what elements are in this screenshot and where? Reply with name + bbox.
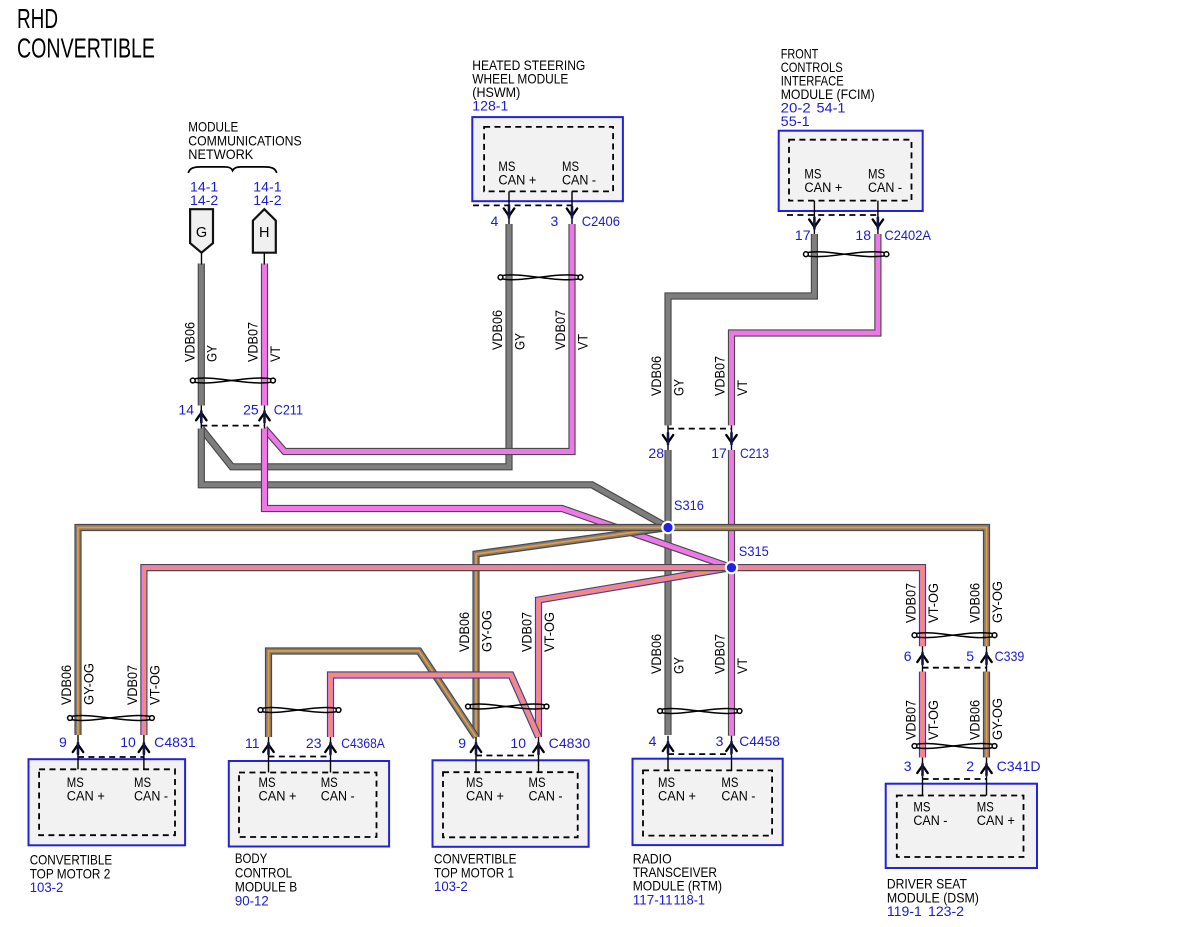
svg-text:CONVERTIBLE: CONVERTIBLE bbox=[17, 33, 155, 64]
svg-text:VDB06: VDB06 bbox=[182, 322, 197, 362]
wire VDB07 VT FCIM pin 18 down-left to C213 pin 17 bbox=[732, 234, 878, 425]
svg-text:C339: C339 bbox=[995, 648, 1025, 664]
module box FCIM bbox=[779, 131, 923, 211]
svg-text:VDB07: VDB07 bbox=[904, 583, 919, 623]
svg-text:10: 10 bbox=[510, 735, 526, 751]
svg-text:90-12: 90-12 bbox=[235, 893, 269, 909]
CTM2 pin 10 stem bbox=[143, 735, 145, 769]
svg-text:VDB06: VDB06 bbox=[649, 634, 664, 674]
svg-text:6: 6 bbox=[904, 648, 912, 664]
svg-text:GY-OG: GY-OG bbox=[480, 610, 495, 652]
svg-text:GY-OG: GY-OG bbox=[82, 663, 97, 705]
CTM2 pin 9 arrow bbox=[73, 743, 83, 754]
svg-text:C2406: C2406 bbox=[582, 213, 620, 229]
CTM2 pin 10 arrow bbox=[139, 743, 149, 754]
svg-text:119-1: 119-1 bbox=[887, 903, 922, 919]
wire VDB07 VT-OG bus: CTM2 pin 10 up, through S315, right and down to DSM C339 pin 6 bbox=[144, 568, 923, 735]
svg-text:CAN +: CAN + bbox=[804, 180, 842, 195]
svg-text:C341D: C341D bbox=[997, 758, 1041, 774]
svg-text:3: 3 bbox=[551, 213, 559, 229]
svg-text:VDB06: VDB06 bbox=[457, 612, 472, 652]
wire VDB07 VT-OG DSM C339 pin 6 down to C341D pin 3 bbox=[919, 672, 926, 758]
stem below connector G bbox=[201, 253, 203, 265]
svg-text:VDB07: VDB07 bbox=[904, 700, 919, 740]
svg-text:C4368A: C4368A bbox=[341, 735, 385, 751]
module box RTM bbox=[633, 759, 783, 845]
svg-text:2: 2 bbox=[966, 758, 974, 774]
C339 connector dashed tie bbox=[923, 667, 987, 669]
svg-text:17: 17 bbox=[795, 227, 811, 243]
twisted pair above BCM-B C4368A bbox=[258, 708, 341, 713]
svg-text:C4830: C4830 bbox=[549, 735, 591, 751]
C211 pin 25 arrow bbox=[259, 411, 269, 422]
wire VDB07 VT C211 pin 25 to HSWM MS CAN- pin 3 bbox=[265, 224, 573, 452]
svg-text:CAN -: CAN - bbox=[868, 180, 902, 195]
svg-text:23: 23 bbox=[306, 735, 322, 751]
svg-text:103-2: 103-2 bbox=[30, 879, 64, 895]
stem below connector H bbox=[263, 253, 265, 265]
svg-text:VT-OG: VT-OG bbox=[542, 612, 557, 652]
twisted pair above C211 bbox=[190, 378, 275, 383]
svg-text:55-1: 55-1 bbox=[781, 113, 810, 129]
C4830 connector dashed tie bbox=[476, 755, 539, 757]
C213 connector dashed tie bbox=[668, 428, 732, 430]
twisted pair above CTM1 C4830 bbox=[466, 704, 549, 709]
svg-text:VDB07: VDB07 bbox=[713, 356, 728, 396]
svg-text:C2402A: C2402A bbox=[884, 227, 931, 243]
svg-text:VDB07: VDB07 bbox=[553, 310, 568, 350]
CTM1 pin 9 arrow bbox=[471, 743, 481, 754]
svg-text:VDB06: VDB06 bbox=[968, 700, 983, 740]
wire VDB06 GY C213 pin 28 through S316 to RTM pin 4 bbox=[664, 450, 671, 735]
wire VDB07 VT C213 pin 17 through S315 to RTM pin 3 bbox=[728, 450, 735, 736]
svg-text:CAN +: CAN + bbox=[259, 789, 297, 804]
C211 connector dashed tie bbox=[201, 425, 264, 427]
twisted pair above DSM C341D bbox=[912, 744, 997, 749]
module box Body Control Module B bbox=[229, 761, 389, 847]
module box Convertible Top Motor 2 bbox=[29, 759, 186, 845]
svg-text:4: 4 bbox=[491, 213, 499, 229]
C211 pin 14 arrow bbox=[196, 411, 206, 422]
C213 pin 17 stem bbox=[731, 425, 733, 450]
CTM2 pin 9 stem bbox=[77, 735, 79, 769]
BCM-B pin 11 arrow bbox=[263, 743, 273, 754]
C213 pin 17 arrow bbox=[726, 433, 736, 444]
module box DSM bbox=[886, 784, 1037, 868]
svg-text:CAN -: CAN - bbox=[529, 789, 563, 804]
C213 pin 28 stem bbox=[667, 425, 669, 450]
wire VDB06 GY C211 pin 14 branch to splice S316 bbox=[201, 429, 668, 528]
svg-text:3: 3 bbox=[716, 733, 724, 749]
svg-text:VDB06: VDB06 bbox=[59, 665, 74, 705]
FCIM pin 17 stem bbox=[813, 201, 815, 234]
twisted pair above CTM2 C4831 bbox=[68, 716, 155, 721]
wire VDB07 VT from connector H down to C211 pin 25 bbox=[261, 264, 268, 406]
svg-text:NETWORK: NETWORK bbox=[188, 146, 254, 162]
svg-text:GY: GY bbox=[671, 657, 686, 674]
BCM-B pin 23 arrow bbox=[325, 743, 335, 754]
C4368A connector dashed tie bbox=[269, 756, 331, 758]
FCIM pin 18 arrow bbox=[873, 218, 883, 229]
svg-text:GY: GY bbox=[671, 379, 686, 396]
C4831 connector dashed tie bbox=[78, 756, 144, 758]
svg-text:GY: GY bbox=[205, 345, 220, 362]
svg-text:5: 5 bbox=[966, 648, 974, 664]
svg-text:54-1: 54-1 bbox=[817, 100, 846, 116]
svg-text:18: 18 bbox=[855, 227, 871, 243]
svg-text:C211: C211 bbox=[274, 402, 303, 418]
svg-text:25: 25 bbox=[243, 402, 259, 418]
svg-text:128-1: 128-1 bbox=[472, 98, 508, 114]
RTM pin 4 arrow bbox=[663, 742, 673, 753]
wire VDB06 GY from connector G down to C211 pin 14 bbox=[198, 264, 205, 406]
svg-text:CAN -: CAN - bbox=[321, 789, 355, 804]
wire VDB06 GY-OG bus: CTM2 pin 9 up, through S316, right and down to DSM C339 pin 5 bbox=[78, 528, 987, 736]
module box HSWM bbox=[472, 117, 623, 201]
svg-text:C213: C213 bbox=[740, 445, 769, 461]
CTM1 pin 10 stem bbox=[538, 737, 540, 772]
HSWM pin 3 arrow bbox=[567, 207, 577, 218]
CTM1 pin 10 arrow bbox=[533, 743, 543, 754]
splice S315 junction dot bbox=[726, 562, 737, 573]
svg-text:3: 3 bbox=[904, 758, 912, 774]
twisted pair above RTM C4458 bbox=[658, 709, 742, 714]
svg-text:CAN -: CAN - bbox=[562, 172, 596, 187]
svg-text:11: 11 bbox=[245, 735, 260, 751]
svg-text:VDB07: VDB07 bbox=[713, 634, 728, 674]
svg-text:CAN +: CAN + bbox=[466, 789, 504, 804]
svg-text:CAN +: CAN + bbox=[498, 172, 536, 187]
svg-text:10: 10 bbox=[120, 734, 136, 750]
wire VDB06 GY C211 pin 14 to HSWM MS CAN+ pin 4 bbox=[201, 224, 509, 467]
FCIM pin 18 stem bbox=[877, 201, 879, 234]
DSM C339 pin 6 arrow bbox=[917, 653, 927, 664]
connector G (module communications network) bbox=[190, 209, 213, 253]
C341D connector dashed tie bbox=[923, 778, 987, 780]
splice S316 junction dot bbox=[662, 522, 673, 533]
svg-text:VT: VT bbox=[735, 658, 750, 674]
wire VDB07 VT-OG Convertible Top Motor 1 pin 10 up to splice S315 bbox=[539, 568, 732, 737]
C4458 connector dashed tie bbox=[668, 753, 732, 755]
svg-text:117-11: 117-11 bbox=[633, 892, 673, 908]
CTM1 pin 9 stem bbox=[475, 737, 477, 772]
svg-text:S316: S316 bbox=[674, 497, 704, 513]
svg-text:G: G bbox=[196, 225, 207, 241]
svg-text:VT: VT bbox=[575, 334, 590, 350]
svg-text:VDB06: VDB06 bbox=[649, 356, 664, 396]
svg-text:9: 9 bbox=[59, 734, 67, 750]
wire VDB07 VT C211 pin 25 branch diagonal to splice S315 bbox=[265, 429, 732, 568]
DSM C341D pin 3 arrow bbox=[917, 764, 927, 775]
connector H (module communications network) bbox=[253, 209, 276, 253]
svg-text:S315: S315 bbox=[739, 543, 769, 559]
svg-text:CAN +: CAN + bbox=[977, 813, 1015, 828]
svg-text:CAN -: CAN - bbox=[913, 813, 947, 828]
C211 pin 14 stem bbox=[200, 406, 202, 429]
svg-text:28: 28 bbox=[648, 445, 664, 461]
wire VDB06 GY-OG BCM-B pin 11 over to CTM1 pin 9 bbox=[269, 651, 477, 737]
svg-text:C4458: C4458 bbox=[739, 733, 780, 749]
C211 pin 25 stem bbox=[264, 406, 266, 429]
svg-text:123-2: 123-2 bbox=[928, 903, 964, 919]
svg-text:4: 4 bbox=[649, 733, 657, 749]
svg-text:CAN -: CAN - bbox=[134, 789, 168, 804]
svg-text:H: H bbox=[259, 225, 269, 241]
svg-text:CAN +: CAN + bbox=[658, 789, 696, 804]
svg-text:VT-OG: VT-OG bbox=[926, 583, 941, 623]
wire VDB06 GY FCIM pin 17 down-left to C213 pin 28 bbox=[668, 234, 814, 425]
twisted pair above DSM C339 bbox=[912, 633, 997, 638]
DSM C339 pin 5 stem bbox=[986, 646, 988, 671]
svg-text:GY-OG: GY-OG bbox=[990, 698, 1005, 740]
svg-text:VT-OG: VT-OG bbox=[147, 665, 162, 705]
svg-text:VDB06: VDB06 bbox=[490, 310, 505, 350]
wire VDB07 VT-OG BCM-B pin 23 over to CTM1 pin 10 bbox=[331, 675, 539, 737]
svg-text:VT-OG: VT-OG bbox=[926, 700, 941, 740]
svg-text:RHD: RHD bbox=[17, 3, 58, 34]
svg-text:14-2: 14-2 bbox=[190, 193, 218, 208]
twisted pair below HSWM C2406 bbox=[498, 275, 583, 280]
svg-text:CAN +: CAN + bbox=[67, 789, 105, 804]
twisted pair below FCIM C2402A bbox=[804, 252, 889, 257]
svg-text:VDB07: VDB07 bbox=[125, 665, 140, 705]
svg-text:103-2: 103-2 bbox=[434, 878, 468, 894]
wire VDB06 GY-OG Convertible Top Motor 1 pin 9 up to splice S316 bbox=[476, 528, 668, 738]
svg-text:118-1: 118-1 bbox=[674, 892, 706, 908]
svg-text:17: 17 bbox=[711, 445, 727, 461]
HSWM pin 4 arrow bbox=[504, 207, 514, 218]
wire VDB06 GY-OG DSM C339 pin 5 down to C341D pin 2 bbox=[983, 672, 990, 758]
svg-text:9: 9 bbox=[458, 735, 466, 751]
svg-text:VDB07: VDB07 bbox=[246, 322, 261, 362]
svg-text:14-2: 14-2 bbox=[253, 193, 281, 208]
svg-text:GY-OG: GY-OG bbox=[990, 581, 1005, 623]
RTM pin 3 stem bbox=[731, 736, 733, 771]
BCM-B pin 11 stem bbox=[268, 737, 270, 773]
brace over G and H bbox=[188, 167, 276, 173]
svg-text:14: 14 bbox=[178, 402, 194, 418]
svg-text:VDB07: VDB07 bbox=[520, 612, 535, 652]
RTM pin 4 stem bbox=[667, 736, 669, 771]
svg-text:GY: GY bbox=[512, 333, 527, 350]
module box Convertible Top Motor 1 bbox=[433, 760, 589, 847]
svg-text:VT: VT bbox=[268, 346, 283, 362]
DSM C341D pin 2 stem bbox=[986, 758, 988, 796]
HSWM pin 4 stem bbox=[508, 191, 510, 224]
FCIM pin 17 arrow bbox=[809, 218, 819, 229]
FCIM C2402A connector dashed tie bbox=[787, 214, 879, 216]
svg-text:CAN -: CAN - bbox=[721, 789, 755, 804]
HSWM C2406 connector dashed tie bbox=[473, 204, 572, 206]
DSM C339 pin 6 stem bbox=[922, 646, 924, 671]
RTM pin 3 arrow bbox=[726, 742, 736, 753]
svg-text:VT: VT bbox=[735, 380, 750, 396]
DSM C339 pin 5 arrow bbox=[981, 653, 991, 664]
BCM-B pin 23 stem bbox=[330, 737, 332, 773]
svg-text:C4831: C4831 bbox=[154, 734, 196, 750]
DSM C341D pin 2 arrow bbox=[981, 764, 991, 775]
C213 pin 28 arrow bbox=[663, 433, 673, 444]
HSWM pin 3 stem bbox=[571, 191, 573, 224]
DSM C341D pin 3 stem bbox=[922, 758, 924, 796]
svg-text:VDB06: VDB06 bbox=[968, 583, 983, 623]
